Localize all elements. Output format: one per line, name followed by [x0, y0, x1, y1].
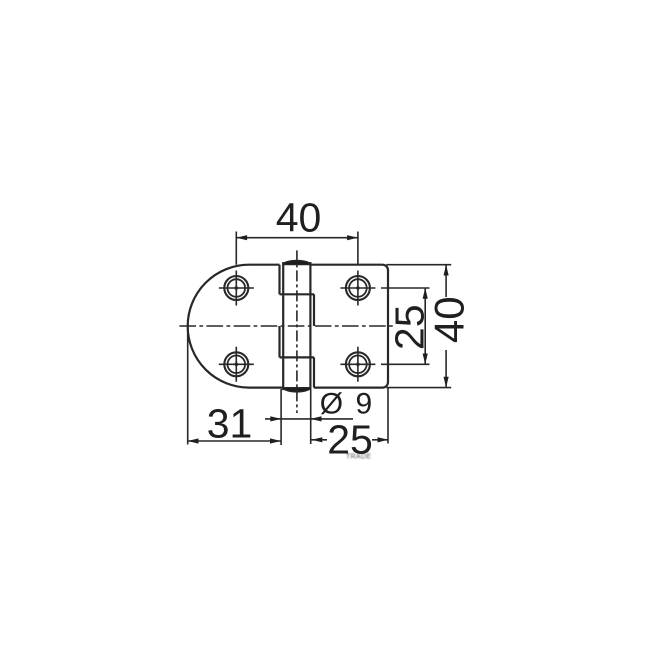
hole bottom-right: inner circle: [349, 356, 367, 374]
knuckle top cap: [283, 260, 310, 264]
dim 25 right: dimension line: [424, 288, 426, 364]
hinge right leaf outline: [310, 265, 388, 388]
dim O9: dimension line: [265, 418, 353, 420]
knuckle barrel left edge: [282, 262, 284, 390]
knuckle joint line upper: [280, 293, 315, 295]
knuckle outer right line segments: [313, 294, 315, 387]
dim 25 right: extension lines: [381, 288, 430, 364]
hole top-right: crosshair: [340, 271, 375, 306]
arrow dimO9 right (points left): [311, 416, 322, 421]
arrow dim40right up: [444, 265, 449, 276]
arrow dim40right down: [444, 377, 449, 388]
dim 40 top: dimension line: [236, 237, 358, 239]
arrow dim40top left: [236, 235, 247, 240]
hole bottom-left: center dot: [235, 363, 239, 367]
knuckle outer left line segments: [278, 265, 280, 358]
arrow dimO9 left (points right): [270, 416, 281, 421]
dim 40 top: extension lines: [236, 232, 358, 265]
hole bottom-right: crosshair: [340, 347, 375, 382]
dim 40 right: dimension line (broken by text): [445, 265, 447, 388]
arrow dim40top right: [347, 235, 358, 240]
hole top-left: crosshair: [219, 271, 254, 306]
svg-text:40: 40: [425, 296, 472, 343]
arrow dim31 left: [188, 438, 199, 443]
hole top-left: inner circle: [228, 279, 246, 297]
arrow dim25right up: [423, 288, 428, 299]
knuckle barrel right edge: [309, 262, 311, 390]
hole bottom-left: crosshair: [219, 347, 254, 382]
svg-text:31: 31: [207, 400, 253, 446]
knuckle joint line lower: [280, 356, 315, 358]
svg-text:40: 40: [276, 195, 322, 241]
svg-text:TRADE: TRADE: [346, 454, 371, 461]
hole bottom-left: inner circle: [228, 356, 246, 374]
hole top-left: outer circle: [224, 276, 248, 300]
arrow dim25bottom right: [378, 437, 389, 442]
hole top-right: outer circle: [346, 276, 370, 300]
arrow dim25bottom left: [312, 437, 323, 442]
dim 25 bottom: dimension line (broken by text): [312, 439, 389, 441]
knuckle bottom cap: [283, 388, 310, 392]
pin centerline (vertical dash-dot): [296, 250, 298, 413]
hole top-right: inner circle: [349, 279, 367, 297]
dim O9: extension lines below knuckle: [281, 389, 311, 445]
dim 25 bottom: extension line right: [387, 388, 389, 444]
arrow dim25right down: [423, 354, 428, 365]
dim 31: dimension line: [188, 440, 281, 442]
hinge left leaf outline (rounded end): [188, 265, 284, 388]
hole bottom-left: outer circle: [224, 352, 248, 376]
hole top-left: center dot: [235, 286, 239, 290]
hole bottom-right: center dot: [356, 363, 360, 367]
arrow dim31 right: [270, 438, 281, 443]
dim 31: extension line left: [187, 326, 189, 444]
hole top-right: center dot: [356, 286, 360, 290]
hinge centerline (horizontal dash-dot): [179, 325, 393, 327]
dim 40 right: extension lines: [386, 265, 451, 388]
hole bottom-right: outer circle: [346, 352, 370, 376]
